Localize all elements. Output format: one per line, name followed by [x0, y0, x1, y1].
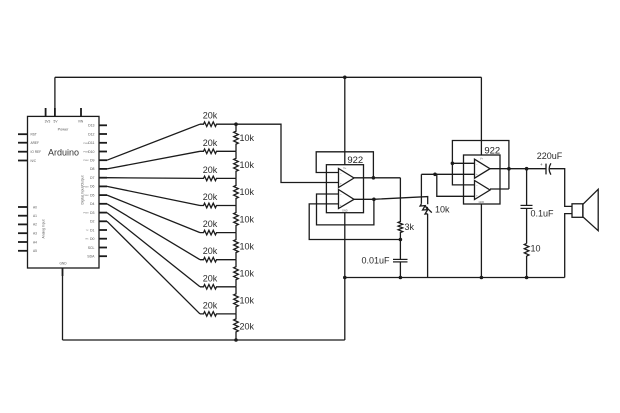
- svg-text:D3: D3: [90, 211, 95, 215]
- resistor R18 10: [524, 244, 529, 257]
- pin D8: [99, 168, 107, 170]
- svg-text:SDA: SDA: [87, 255, 95, 259]
- junction U2 input node: [433, 173, 437, 177]
- wire +V rail to U1 V+ pin: [344, 77, 346, 164]
- pin D9: [99, 159, 107, 161]
- svg-text:10k: 10k: [240, 241, 255, 251]
- resistor R5 20k: [200, 230, 236, 235]
- resistor R11 10k: [234, 178, 239, 205]
- resistor R2 20k: [200, 149, 236, 154]
- resistor R7 20k: [200, 285, 236, 290]
- op-amp U2 922 body: [464, 155, 501, 204]
- wire D9 to R1: [107, 124, 200, 160]
- wire U1B feedback loop: [317, 194, 374, 225]
- op-amp U2B triangle: [475, 181, 491, 200]
- svg-text:20k: 20k: [203, 273, 218, 283]
- wire D4 to R6: [107, 204, 200, 260]
- svg-text:IO REF: IO REF: [31, 150, 42, 154]
- resistor R14 10k: [234, 260, 239, 287]
- wire U1B output: [354, 198, 374, 200]
- svg-text:GND: GND: [342, 210, 348, 213]
- svg-text:+: +: [476, 194, 478, 198]
- svg-text:10: 10: [531, 244, 541, 254]
- wire U1A feedback loop: [316, 152, 373, 178]
- junction U1 V- / mid ground rail: [343, 276, 347, 280]
- wire D5 to R5: [107, 195, 200, 233]
- pin 5V: [54, 108, 56, 116]
- pin A4: [18, 241, 28, 243]
- wire U2 feedback loop: [452, 141, 509, 190]
- svg-text:20k: 20k: [203, 165, 218, 175]
- svg-text:+: +: [476, 172, 478, 176]
- svg-text:10k: 10k: [240, 160, 255, 170]
- pin 3V3: [45, 108, 47, 116]
- svg-text:922: 922: [484, 145, 500, 156]
- wire U2 inverting inputs tie: [452, 163, 474, 185]
- svg-text:10k: 10k: [435, 205, 450, 215]
- pin GND: [62, 268, 64, 276]
- svg-text:RX: RX: [85, 239, 89, 241]
- pin D3: [99, 212, 107, 214]
- resistor R12 10k: [234, 206, 239, 233]
- svg-text:A1: A1: [33, 214, 37, 218]
- wire U2 V- to ground: [480, 204, 482, 278]
- pin D7: [99, 177, 107, 179]
- resistor R1 20k: [200, 122, 236, 127]
- pin SCL: [99, 247, 107, 249]
- junction R18 / ground rail: [525, 276, 529, 280]
- svg-text:A3: A3: [33, 232, 37, 236]
- junction C1 / ground rail: [399, 276, 403, 280]
- junction U2 V- / ground rail: [480, 276, 484, 280]
- wire D2 to R8: [107, 221, 200, 314]
- svg-text:GND: GND: [479, 201, 485, 204]
- pin D6: [99, 185, 107, 187]
- wire D7 to R3: [107, 177, 200, 180]
- svg-text:−: −: [340, 171, 342, 175]
- svg-text:3V3: 3V3: [45, 120, 51, 124]
- potentiometer VR1 10k: [420, 204, 428, 214]
- svg-text:0.01uF: 0.01uF: [361, 255, 390, 265]
- svg-text:D11: D11: [88, 141, 94, 145]
- junction filter node: [399, 238, 403, 242]
- resistor R16 20k (ladder terminator): [234, 314, 239, 340]
- pin A2: [18, 223, 28, 225]
- svg-text:A4: A4: [33, 240, 37, 244]
- wire U2A output: [490, 168, 546, 170]
- svg-text:20k: 20k: [203, 246, 218, 256]
- svg-text:Analog Input: Analog Input: [42, 219, 46, 238]
- svg-text:10k: 10k: [240, 214, 255, 224]
- wire GND to ground rail: [62, 276, 64, 340]
- pin A3: [18, 232, 28, 234]
- wire pot to U2 input node: [421, 173, 474, 175]
- resistor R6 20k: [200, 257, 236, 262]
- svg-text:Digital Input/Output: Digital Input/Output: [81, 175, 85, 204]
- pin D2: [99, 220, 107, 222]
- svg-text:A0: A0: [33, 205, 37, 209]
- pin D1: [99, 229, 107, 231]
- svg-text:+: +: [540, 162, 543, 167]
- svg-text:−: −: [476, 162, 478, 166]
- wire +V rail to U2 V+ pin: [480, 77, 482, 155]
- pin D0: [99, 238, 107, 240]
- wire ladder to U1A non-inverting input: [236, 124, 339, 182]
- svg-text:PWM: PWM: [83, 160, 89, 162]
- svg-text:D12: D12: [88, 132, 94, 136]
- svg-text:+: +: [340, 182, 342, 186]
- wire D6 to R4: [107, 186, 200, 205]
- svg-text:PWM: PWM: [83, 213, 89, 215]
- wire U1A output: [354, 177, 400, 179]
- speaker LS1: [572, 204, 583, 218]
- svg-text:D8: D8: [90, 167, 95, 171]
- junction output node: [525, 167, 529, 171]
- junction U2A output / feedback: [507, 167, 511, 171]
- svg-text:0.1uF: 0.1uF: [531, 209, 555, 219]
- wire U1 V- to ground: [344, 213, 346, 340]
- wire D8 to R2: [107, 151, 200, 169]
- junction U1B output node: [372, 198, 376, 202]
- pin D5: [99, 194, 107, 196]
- pin A1: [18, 215, 28, 217]
- pin D4: [99, 203, 107, 205]
- op-amp U1B triangle: [339, 190, 355, 209]
- resistor R9 10k: [234, 124, 239, 151]
- svg-text:GND: GND: [59, 262, 67, 266]
- svg-text:D0: D0: [90, 237, 95, 241]
- resistor R8 20k: [200, 312, 236, 317]
- svg-text:3k: 3k: [405, 222, 415, 232]
- svg-text:PWM: PWM: [83, 195, 89, 197]
- wire U1B output to potentiometer wiper: [374, 197, 428, 205]
- svg-text:20k: 20k: [203, 192, 218, 202]
- svg-text:220uF: 220uF: [537, 151, 563, 161]
- op-amp U2A triangle: [475, 159, 491, 178]
- wire U1B non-inverting input from filter node: [309, 204, 400, 240]
- pin N/C: [18, 160, 28, 162]
- resistor R15 10k: [234, 287, 239, 314]
- wire 5V to +V rail: [54, 77, 56, 108]
- junction ladder output node: [234, 122, 238, 126]
- resistor R4 20k: [200, 203, 236, 208]
- svg-text:V+: V+: [480, 158, 484, 161]
- svg-text:PWM: PWM: [83, 143, 89, 145]
- junction ladder / ground rail: [234, 338, 238, 342]
- svg-text:20k: 20k: [240, 322, 255, 332]
- wire U2B output: [490, 188, 509, 190]
- pin A5: [18, 250, 28, 252]
- svg-text:SCL: SCL: [88, 246, 95, 250]
- svg-text:D5: D5: [90, 193, 95, 197]
- pin RST: [18, 133, 28, 135]
- pin A0: [18, 206, 28, 208]
- svg-text:10k: 10k: [240, 133, 255, 143]
- resistor R17 3k: [398, 178, 403, 240]
- svg-text:D13: D13: [88, 124, 94, 128]
- pin D11: [99, 142, 107, 144]
- svg-text:−: −: [476, 183, 478, 187]
- svg-text:D1: D1: [90, 228, 95, 232]
- svg-text:RST: RST: [31, 133, 37, 137]
- svg-text:10k: 10k: [240, 187, 255, 197]
- +V power rail: [55, 76, 482, 78]
- op-amp U1A triangle: [339, 169, 355, 188]
- pin SDA: [99, 255, 107, 257]
- svg-text:20k: 20k: [203, 111, 218, 121]
- capacitor C1 0.01uF: [399, 240, 401, 260]
- svg-text:AREF: AREF: [31, 141, 40, 145]
- svg-text:D4: D4: [90, 202, 95, 206]
- pin AREF: [18, 142, 28, 144]
- svg-text:A2: A2: [33, 223, 37, 227]
- svg-text:A5: A5: [33, 249, 37, 253]
- svg-text:V+: V+: [343, 167, 347, 170]
- svg-text:VIN: VIN: [78, 120, 84, 124]
- resistor R3 20k: [200, 176, 236, 181]
- svg-text:N/C: N/C: [31, 159, 37, 163]
- junction U1A output node: [372, 176, 376, 180]
- pin D12: [99, 133, 107, 135]
- mid ground rail: [345, 277, 565, 279]
- svg-text:PWM: PWM: [83, 186, 89, 188]
- resistor R10 10k: [234, 151, 239, 178]
- op-amp U1 922 body: [326, 165, 363, 213]
- junction +V rail / U1 V+: [343, 76, 347, 80]
- svg-text:D6: D6: [90, 185, 95, 189]
- svg-text:20k: 20k: [203, 138, 218, 148]
- svg-text:10k: 10k: [240, 296, 255, 306]
- resistor R13 10k: [234, 233, 239, 260]
- junction U2 inverting tie: [451, 162, 455, 166]
- svg-text:Power: Power: [58, 128, 69, 132]
- pin D13: [99, 124, 107, 126]
- wire D3 to R7: [107, 213, 200, 287]
- svg-text:10k: 10k: [240, 268, 255, 278]
- pin D10: [99, 151, 107, 153]
- wire C3 to speaker: [550, 169, 572, 207]
- Arduino module body: [28, 116, 100, 268]
- svg-text:922: 922: [347, 155, 363, 166]
- wire speaker to ground: [565, 214, 572, 278]
- svg-text:Arduino: Arduino: [48, 147, 79, 157]
- svg-text:20k: 20k: [203, 300, 218, 310]
- svg-text:D7: D7: [90, 176, 95, 180]
- capacitor C2 0.1uF: [526, 169, 528, 206]
- capacitor C3 220uF electrolytic: [545, 164, 547, 175]
- wire input node to U2B non-inverting input: [435, 174, 475, 196]
- svg-text:D9: D9: [90, 159, 95, 163]
- svg-text:20k: 20k: [203, 219, 218, 229]
- svg-text:−: −: [340, 193, 342, 197]
- svg-text:+: +: [340, 203, 342, 207]
- pin IO REF: [18, 151, 28, 153]
- pin VIN: [80, 108, 82, 116]
- svg-text:D2: D2: [90, 220, 95, 224]
- svg-text:PWM: PWM: [83, 152, 89, 154]
- bottom ground rail: [63, 339, 345, 341]
- svg-text:D10: D10: [88, 150, 94, 154]
